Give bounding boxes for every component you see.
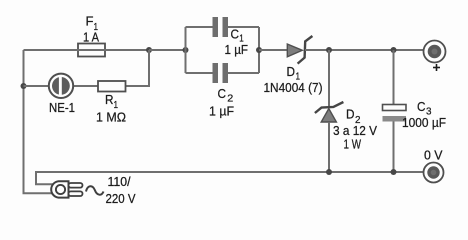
svg-text:3 a 12 V: 3 a 12 V (333, 124, 378, 138)
label D2 (346, 108, 361, 127)
wire: bottom rail (36, 172, 424, 184)
label 1 W (344, 138, 362, 152)
label 1 uF (C2) (209, 105, 234, 119)
label NE-1 (49, 101, 75, 115)
svg-text:C: C (417, 100, 426, 114)
node: C3 top (391, 47, 397, 53)
label 1000 uF (402, 116, 446, 130)
label 1 MOhm (96, 111, 126, 125)
svg-text:C: C (218, 87, 227, 101)
capacitor C3 (383, 105, 407, 122)
wire: C3 branch bottom (393, 122, 395, 173)
AC sine symbol (86, 186, 104, 195)
label D1 (287, 65, 301, 82)
resistor R1 (98, 81, 126, 92)
wire: lamp branch (24, 85, 99, 87)
fuse F1 (74, 44, 149, 57)
svg-text:1 A: 1 A (83, 31, 100, 45)
label C2 (218, 87, 234, 105)
label 110/ (108, 175, 132, 189)
svg-text:NE-1: NE-1 (49, 101, 75, 115)
label C1 (231, 28, 244, 45)
wire: cap bank left bracket (185, 27, 187, 73)
wire: left vertical rail (24, 50, 54, 193)
label 3 a 12 V (333, 124, 378, 138)
wire: top rail to cap bank (149, 49, 186, 51)
wire: D2 branch bottom (328, 122, 330, 172)
svg-text:1: 1 (114, 99, 119, 111)
diode D1 (287, 36, 312, 64)
node: D2 top (326, 47, 332, 53)
svg-text:R: R (105, 93, 114, 107)
svg-text:220 V: 220 V (106, 192, 137, 206)
label 1 uF (C1) (225, 43, 249, 57)
capacitor C1 (186, 17, 260, 37)
label F1 (86, 15, 99, 34)
svg-text:D: D (346, 108, 355, 122)
node: junction top rail / R1 riser (146, 47, 152, 53)
svg-text:1000 µF: 1000 µF (402, 116, 446, 130)
node: D2 bottom (326, 169, 332, 175)
capacitor C2 (186, 63, 260, 83)
node: cap bank left (183, 47, 189, 53)
svg-text:D: D (287, 65, 296, 79)
zener diode D2 (315, 102, 344, 122)
wire: D2 branch top (328, 50, 330, 108)
label 220 V (106, 192, 137, 206)
label R1 (105, 93, 118, 111)
svg-text:1 MΩ: 1 MΩ (96, 111, 126, 125)
label + (433, 64, 440, 71)
node: C3 bottom (391, 169, 397, 175)
label C3 (417, 100, 432, 118)
terminal 0V (424, 163, 444, 183)
node: cap bank right (256, 47, 262, 53)
wire: cap bank right bracket (258, 27, 260, 73)
terminal + (424, 41, 446, 63)
wire: top rail left segment (24, 49, 79, 51)
wire: C3 branch top (393, 50, 395, 105)
neon lamp NE-1 (49, 74, 73, 98)
svg-text:1 µF: 1 µF (225, 43, 249, 57)
svg-text:1N4004 (7): 1N4004 (7) (264, 81, 323, 95)
wire: cap bank to D1 (259, 49, 287, 51)
AC plug (51, 181, 82, 197)
wire: riser from R1 branch (126, 50, 150, 86)
svg-text:2: 2 (227, 93, 233, 105)
wire: D1 to + terminal (305, 49, 424, 51)
label 0 V (424, 149, 443, 163)
svg-text:1 W: 1 W (344, 138, 362, 152)
svg-text:1 µF: 1 µF (209, 105, 234, 119)
svg-text:C: C (231, 28, 240, 42)
label 1N4004 (7) (264, 81, 323, 95)
node: left rail / lamp branch (21, 83, 27, 89)
svg-text:110/: 110/ (108, 175, 132, 189)
label 1 A (83, 31, 100, 45)
svg-text:0 V: 0 V (424, 149, 443, 163)
